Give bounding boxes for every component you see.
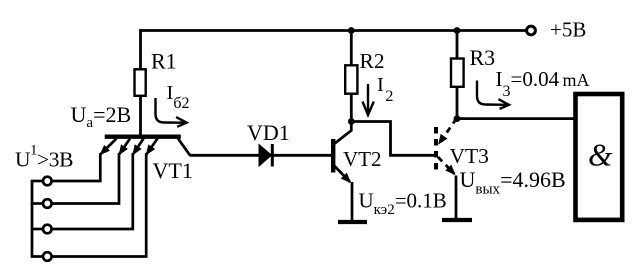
transistor VT3 dashed [436,119,457,219]
resistor R3 [451,59,464,87]
wire top rail [140,29,527,32]
svg-text:Uкэ2=0.1В: Uкэ2=0.1В [359,189,447,219]
svg-text:Uа=2В: Uа=2В [71,102,132,131]
VT2 emitter wire [351,182,354,220]
input wire 4 [52,153,147,257]
transistor VT1 multi-emitter [101,137,190,156]
svg-text:VT2: VT2 [343,147,382,171]
svg-text:I2: I2 [377,74,393,105]
svg-text:VT1: VT1 [153,158,193,183]
VT2 base bar [331,139,335,173]
svg-text:VD1: VD1 [247,120,290,145]
terminal +5V [527,26,536,35]
VT1 emitter 3 [133,139,143,155]
resistor R1 [135,69,146,96]
input terminal 2 [43,199,52,208]
VT1 collector [178,139,190,156]
transistor VT2 [333,122,352,221]
wire R2 bottom [350,94,353,122]
VT3 collector dashed [439,119,457,144]
resistor R2 [345,65,357,93]
wire R2 top [350,31,353,66]
input wire 3 [52,153,133,229]
VT1 emitter 2 [120,139,131,155]
wire R3 top [456,31,459,59]
node rail R2 [348,27,355,34]
AND block [576,94,623,220]
wire VT2 collector node to VT3 base [351,122,434,156]
input wire 2 [52,153,120,204]
VT1 base bar [105,134,181,138]
current arrow I3 [477,81,509,109]
input bus stubs [31,181,43,257]
svg-text:Uвых=4.96В: Uвых=4.96В [460,167,566,198]
svg-text:mA: mA [563,70,590,90]
input terminal 1 [43,177,52,186]
current arrow I2 [363,84,374,115]
current arrow Ib2 [156,98,187,127]
svg-text:+5В: +5В [550,18,586,42]
VT3 base bar [434,127,438,173]
VT3 emitter dashed [438,157,455,174]
svg-text:R1: R1 [151,49,177,74]
VT3 emitter wire [455,176,458,219]
input wire 1 [52,153,101,181]
svg-text:&: & [588,138,613,173]
wire R1 top [139,29,142,69]
VT2 collector [334,122,351,145]
svg-text:I3=0.04: I3=0.04 [496,67,560,100]
input terminal 4 [43,252,52,261]
input terminal 3 [43,225,52,234]
node under R2 [348,118,355,125]
VT2 emitter [334,166,350,183]
VT1 emitter 4 [147,139,158,155]
ground VT3 [442,218,472,222]
svg-text:R2: R2 [360,49,385,73]
input bus [31,181,34,257]
VT1 emitter 1 [101,139,117,155]
node under R3 [454,115,461,122]
node rail R3 [454,27,461,34]
wire VT1 collector to VT2 base [190,154,332,157]
wire R1 bottom [139,96,142,137]
wire output node to AND block [457,117,574,120]
svg-text:U1>3В: U1>3В [15,143,73,172]
ground VT2 [338,220,367,224]
svg-text:Iб2: Iб2 [167,82,190,112]
svg-text:R3: R3 [470,45,496,70]
diode VD1 [259,144,272,167]
wire R3 bottom [456,87,459,119]
svg-text:VT3: VT3 [450,144,489,168]
